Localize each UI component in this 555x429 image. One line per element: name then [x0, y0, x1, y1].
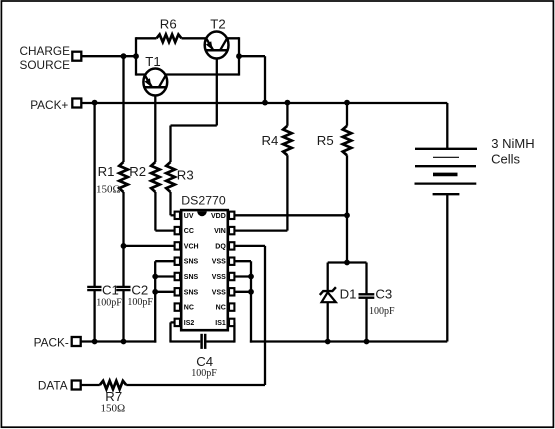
wire R2 to CC pin	[155, 229, 174, 231]
wire R4 top vertical	[286, 103, 288, 126]
svg-text:VSS: VSS	[212, 274, 226, 281]
svg-text:DATA: DATA	[38, 379, 68, 393]
svg-text:R6: R6	[160, 16, 177, 31]
resistor R6	[157, 35, 182, 43]
pin 5 SNS	[175, 273, 180, 280]
svg-text:C2: C2	[131, 283, 148, 298]
wire DQ drop to DATA	[264, 246, 266, 385]
svg-text:150Ω: 150Ω	[96, 183, 121, 195]
svg-text:T1: T1	[145, 54, 160, 69]
wire D1 top lead	[327, 263, 329, 292]
transistor T1	[143, 69, 167, 96]
wire PACK+ to battery top	[446, 103, 448, 149]
pin 13 VSS	[229, 258, 234, 265]
svg-text:IS2: IS2	[184, 320, 195, 327]
resistor R5	[343, 126, 352, 156]
svg-text:C4: C4	[196, 354, 213, 369]
wire IS2 down	[169, 322, 171, 341]
svg-text:VIN: VIN	[214, 228, 226, 235]
pin 10 NC	[229, 303, 234, 310]
wire VSS pin6	[233, 291, 251, 293]
pin 15 VIN	[229, 227, 234, 234]
IC notch	[197, 211, 207, 216]
wire R3 to UV pin	[171, 214, 175, 216]
svg-text:UV: UV	[184, 213, 194, 220]
wire R7 to DQ drop	[126, 384, 265, 386]
wire C4 right	[206, 340, 234, 342]
wire C3 top lead	[365, 263, 367, 294]
svg-text:100pF: 100pF	[127, 297, 153, 308]
pin 8 IS2	[175, 319, 180, 326]
resistor R3	[166, 162, 175, 192]
pin 6 SNS	[175, 288, 180, 295]
svg-text:SNS: SNS	[184, 274, 199, 281]
svg-text:100pF: 100pF	[96, 298, 122, 309]
svg-text:CHARGE: CHARGE	[20, 44, 71, 58]
svg-text:DQ: DQ	[215, 243, 226, 250]
capacitor C3	[359, 293, 375, 295]
svg-text:VSS: VSS	[212, 289, 226, 296]
wire D1 C3 top rail	[328, 261, 367, 263]
wire loop left vertical	[135, 37, 137, 75]
svg-text:C3: C3	[375, 287, 392, 302]
wire C2 to PACK-	[122, 291, 124, 342]
resistor R4	[283, 126, 292, 156]
wire R5 bottom to D1 rail	[346, 155, 348, 262]
pin 9 IS1	[229, 319, 234, 326]
IC U1 DS2770 body	[181, 210, 228, 330]
wire R3 down	[169, 192, 171, 215]
wire R6 to T2 to loop right	[182, 37, 240, 39]
terminal CHARGE SOURCE	[72, 52, 81, 61]
svg-text:SNS: SNS	[184, 259, 199, 266]
svg-text:VDD: VDD	[211, 213, 226, 220]
wire VSS pin4	[233, 260, 251, 262]
wire T2 collector drop to PACK+	[264, 56, 266, 103]
svg-text:R1: R1	[98, 164, 115, 179]
wire T2 base down	[216, 50, 218, 125]
resistor R7	[100, 381, 126, 389]
pin 14 DQ	[229, 242, 234, 249]
resistor R2	[151, 162, 160, 192]
svg-text:PACK-: PACK-	[34, 335, 69, 349]
svg-text:SNS: SNS	[184, 289, 199, 296]
wire battery bottom lead	[446, 195, 448, 342]
svg-text:R3: R3	[177, 167, 194, 182]
pin 12 VSS	[229, 273, 234, 280]
transistor T2	[205, 32, 229, 59]
zener diode D1	[320, 287, 336, 295]
wire T1 base down to R2	[154, 87, 156, 163]
wire SNS pin6	[155, 291, 175, 293]
svg-text:D1: D1	[340, 287, 357, 302]
svg-text:NC: NC	[184, 305, 194, 312]
svg-text:PACK+: PACK+	[30, 98, 68, 112]
wire DATA terminal to R7	[81, 384, 100, 386]
capacitor C1	[87, 286, 101, 288]
wire VIN pin to R4	[233, 229, 287, 231]
svg-text:100pF: 100pF	[369, 306, 395, 317]
wire IS2 nub	[171, 321, 175, 323]
wire R5 top	[346, 103, 348, 126]
svg-text:3 NiMH: 3 NiMH	[491, 136, 534, 151]
junction dots	[92, 100, 98, 106]
wire down to R3	[169, 126, 171, 163]
wire SNS vertical to PACK-	[154, 261, 156, 342]
svg-text:T2: T2	[210, 16, 225, 31]
wire R2 down	[154, 192, 156, 231]
capacitor C2	[116, 286, 130, 288]
svg-text:IS1: IS1	[215, 320, 226, 327]
pin 2 CC	[175, 227, 180, 234]
svg-text:Cells: Cells	[491, 152, 520, 167]
wire SNS pin4	[155, 260, 175, 262]
wire CHARGE line down to R1	[122, 56, 124, 162]
pin 11 VSS	[229, 288, 234, 295]
wire loop right vertical	[238, 37, 240, 75]
svg-text:SOURCE: SOURCE	[20, 58, 71, 72]
wire DQ pin	[233, 245, 265, 247]
wire VSS vertical	[250, 261, 252, 342]
svg-text:100pF: 100pF	[191, 368, 217, 379]
svg-text:150Ω: 150Ω	[101, 402, 126, 414]
resistor R1	[119, 162, 128, 192]
svg-text:R2: R2	[129, 164, 146, 179]
wire SNS pin5	[155, 275, 175, 277]
wire T2 collector horizontal	[239, 55, 265, 57]
battery B1 3 NiMH cells	[415, 148, 477, 150]
wire C4 left	[169, 340, 200, 342]
wire T2 base left	[171, 124, 217, 126]
wire VDD pin to R5	[233, 214, 347, 216]
wire PACK- rail	[81, 340, 157, 342]
wire PACK+ rail	[81, 102, 447, 104]
pin 3 VCH	[175, 242, 180, 249]
wire C1 to PACK-	[93, 291, 95, 342]
pin 4 SNS	[175, 258, 180, 265]
wire CHARGE SOURCE to loop	[81, 55, 136, 57]
wire C3 bottom lead	[365, 298, 367, 342]
wire VSS pin5	[233, 275, 251, 277]
svg-text:DS2770: DS2770	[181, 193, 226, 207]
terminal PACK-	[72, 337, 81, 346]
svg-text:R4: R4	[262, 133, 279, 148]
pin 7 NC	[175, 303, 180, 310]
svg-text:CC: CC	[184, 228, 194, 235]
capacitor C4	[200, 334, 203, 349]
pin 16 VDD	[229, 212, 234, 219]
svg-text:NC: NC	[216, 305, 226, 312]
wire D1 bottom lead	[327, 302, 329, 342]
terminal DATA	[72, 381, 81, 390]
svg-text:R5: R5	[317, 133, 334, 148]
svg-text:VSS: VSS	[212, 259, 226, 266]
wire VSS to battery bottom rail	[250, 340, 447, 342]
svg-text:VCH: VCH	[184, 243, 199, 250]
terminal PACK+	[72, 99, 81, 108]
wire loop bottom through T1	[136, 73, 239, 75]
wire R1 to C2	[122, 192, 124, 286]
wire IS1 nub	[230, 321, 234, 323]
wire R4 bottom vertical	[286, 155, 288, 230]
wire PACK+ down to C1	[93, 103, 95, 286]
wire VCH pin to R1 line	[124, 245, 175, 247]
svg-text:C1: C1	[102, 283, 119, 298]
pin 1 UV	[175, 212, 180, 219]
wire loop top left to R6	[136, 37, 157, 39]
wire IS1 down	[233, 322, 235, 342]
